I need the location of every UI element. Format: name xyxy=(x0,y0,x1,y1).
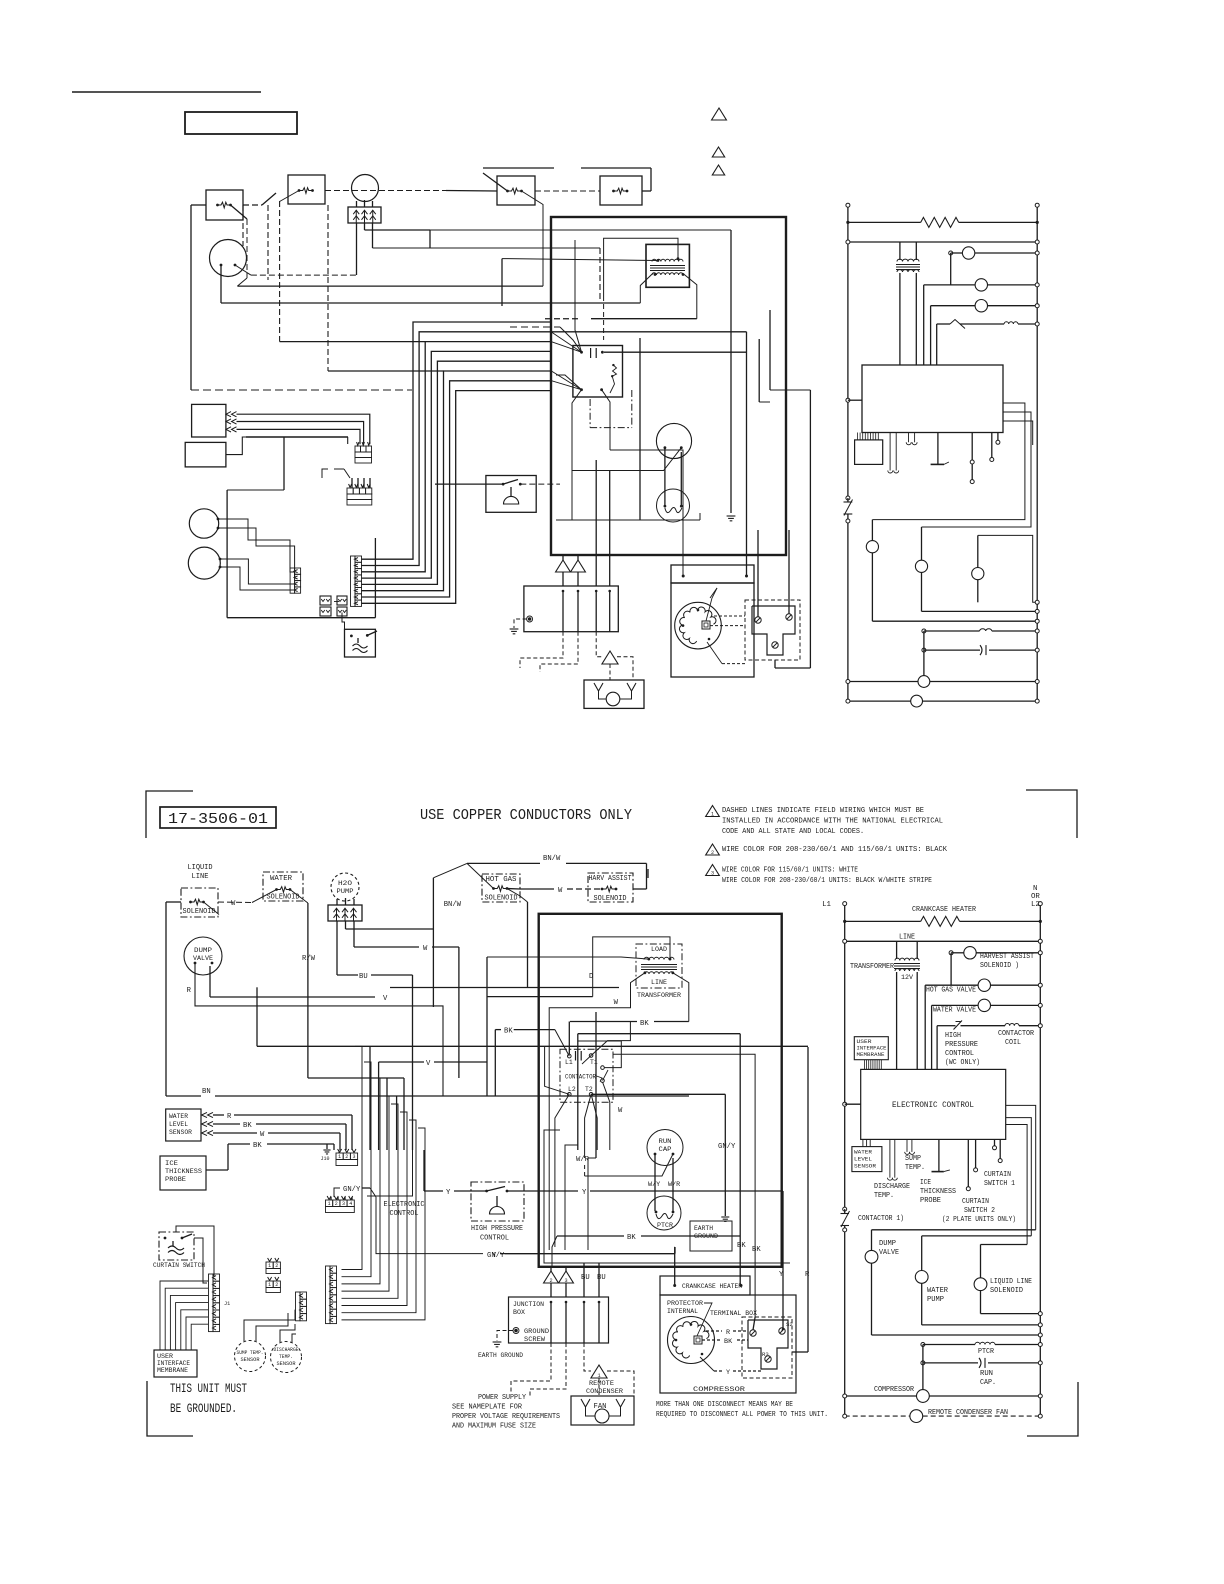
svg-text:LIQUID LINE: LIQUID LINE xyxy=(990,1278,1032,1286)
right rail (top ladder) xyxy=(1036,207,1038,701)
connector 4pin-B (top) xyxy=(295,568,301,574)
HPC wires (top) xyxy=(435,483,503,485)
ladder transformer (top) xyxy=(899,242,901,260)
crankcase heater strip (top) xyxy=(671,565,754,583)
svg-text:HARV ASSIST: HARV ASSIST xyxy=(589,875,633,883)
loop above curtain switch (top) xyxy=(334,530,336,542)
8pin riser bundle (top) xyxy=(362,322,552,559)
svg-text:PTCR: PTCR xyxy=(978,1348,995,1356)
vertical pair mid xyxy=(577,1034,579,1118)
svg-text:W: W xyxy=(423,945,428,953)
svg-text:WIRE COLOR FOR 208-230/60/1 UN: WIRE COLOR FOR 208-230/60/1 UNITS: BLACK… xyxy=(722,877,932,885)
junction box wires xyxy=(550,1267,552,1271)
right rail xyxy=(1039,906,1041,1417)
sensor wires to connectors xyxy=(244,1310,295,1341)
svg-text:PTCR: PTCR xyxy=(657,1222,673,1229)
svg-text:SWITCH 2: SWITCH 2 xyxy=(964,1207,995,1215)
svg-text:(WC ONLY): (WC ONLY) xyxy=(945,1059,980,1067)
svg-text:17-3506-01: 17-3506-01 xyxy=(168,812,268,828)
svg-text:RUN: RUN xyxy=(659,1138,672,1145)
dump valve (top) xyxy=(210,240,247,277)
BK label wire left of box xyxy=(514,1029,555,1031)
svg-text:BK: BK xyxy=(504,1028,513,1036)
svg-text:CONTROL: CONTROL xyxy=(390,1210,419,1218)
plug wires (top) xyxy=(356,223,358,275)
svg-text:COMPRESSOR: COMPRESSOR xyxy=(693,1386,745,1394)
long wire y303 (top) xyxy=(221,302,640,304)
svg-text:SOLENOID: SOLENOID xyxy=(990,1287,1023,1295)
svg-text:WATER: WATER xyxy=(854,1149,873,1156)
svg-text:PROBE: PROBE xyxy=(165,1176,186,1184)
svg-text:W: W xyxy=(618,1107,623,1115)
svg-text:BK: BK xyxy=(627,1234,636,1242)
connector J6 3pin xyxy=(336,1153,343,1160)
svg-text:BN: BN xyxy=(202,1088,211,1096)
water valve (ladder) xyxy=(932,1004,978,1006)
long wire y617.7 (top) xyxy=(227,617,375,619)
svg-text:PROPER VOLTAGE REQUIREMENTS: PROPER VOLTAGE REQUIREMENTS xyxy=(452,1413,560,1421)
svg-text:PUMP: PUMP xyxy=(927,1296,944,1304)
wire BK probe xyxy=(206,1169,228,1171)
curtain switch wires (top) xyxy=(334,601,339,603)
rail nodes top xyxy=(846,203,850,207)
connector 3pin (top) xyxy=(355,446,361,452)
curtain switch (top) xyxy=(345,629,376,657)
svg-text:CAP.: CAP. xyxy=(980,1379,996,1387)
svg-text:CONTROL: CONTROL xyxy=(945,1050,974,1058)
svg-text:INTERFACE: INTERFACE xyxy=(157,1360,190,1367)
wires into contactor BL (top) xyxy=(556,375,582,390)
svg-text:JUNCTION: JUNCTION xyxy=(513,1301,544,1309)
ground screw xyxy=(514,1329,518,1333)
svg-text:SWITCH 1: SWITCH 1 xyxy=(984,1180,1015,1188)
dashed wires left (top) xyxy=(242,205,244,246)
V wire y1062 xyxy=(379,1061,424,1063)
wire T1 tee up xyxy=(591,1022,630,1056)
PTCR xyxy=(647,1196,681,1230)
bottom interior verticals bundle xyxy=(544,1130,790,1263)
svg-text:SUMP: SUMP xyxy=(905,1155,921,1163)
discharge temp (ladder) xyxy=(889,1139,891,1177)
J10 ground stub xyxy=(326,1144,328,1149)
svg-text:CURTAIN: CURTAIN xyxy=(984,1171,1011,1179)
electronic control box (ladder) xyxy=(861,1069,1006,1139)
sump temp sensor xyxy=(235,1341,266,1372)
note triangle 3 (top) xyxy=(712,165,724,175)
sump temp (ladder) xyxy=(906,1139,908,1152)
WLS wires (top) xyxy=(237,414,370,444)
liquid line solenoid (top) xyxy=(206,190,243,220)
svg-text:R: R xyxy=(187,987,192,995)
svg-text:TRANSFORMER: TRANSFORMER xyxy=(637,992,681,1000)
BN bus y1096 xyxy=(166,1095,201,1097)
wire into LOAD left xyxy=(487,957,649,959)
wire bus from pump plug mid down xyxy=(346,928,434,930)
liquid line solenoid (ladder) xyxy=(981,1244,1028,1246)
hot gas valve (ladder) xyxy=(950,953,952,985)
PTCR rung (top ladder) xyxy=(922,629,926,633)
svg-text:W: W xyxy=(260,1131,265,1139)
wires into terminal box (top) xyxy=(757,530,759,617)
pump receptacle plug xyxy=(328,905,362,921)
wire R from dump valve xyxy=(195,963,443,1096)
svg-text:MEMBRANE: MEMBRANE xyxy=(857,1051,886,1058)
aux wire loop xyxy=(578,1041,622,1068)
svg-text:INTERNAL: INTERNAL xyxy=(667,1308,698,1316)
compressor box (top) xyxy=(671,583,754,677)
contactor dash-dot fragments (top) xyxy=(589,399,591,428)
svg-text:1: 1 xyxy=(597,1373,600,1379)
svg-text:INSTALLED IN ACCORDANCE WITH T: INSTALLED IN ACCORDANCE WITH THE NATIONA… xyxy=(722,818,943,826)
svg-text:BOX: BOX xyxy=(513,1309,525,1317)
svg-text:Y: Y xyxy=(779,1271,784,1279)
note triangle 2 (top) xyxy=(712,147,724,157)
wire T2 right (GN/Y riser) xyxy=(591,1093,725,1095)
control box boundary xyxy=(539,914,782,1267)
fan box (top) xyxy=(584,680,644,708)
svg-text:BK: BK xyxy=(243,1122,252,1130)
feeder rung xyxy=(845,940,1041,942)
wire LLS left to rail xyxy=(166,901,181,903)
svg-text:LINE: LINE xyxy=(651,979,667,987)
junction box (top) xyxy=(524,586,618,632)
line transformer dashed box xyxy=(636,944,682,988)
terminal box tee xyxy=(748,1320,788,1369)
contactor contact on rail (top) xyxy=(846,496,850,500)
svg-text:W/Y: W/Y xyxy=(648,1181,660,1189)
svg-text:MEMBRANE: MEMBRANE xyxy=(157,1367,188,1374)
svg-text:TEMP.: TEMP. xyxy=(874,1192,894,1200)
water pump (top ladder) xyxy=(915,560,927,572)
svg-text:BK: BK xyxy=(752,1246,761,1254)
dashed field wiring below (top) xyxy=(520,632,563,668)
remote condenser fan (top ladder) xyxy=(848,700,911,702)
remote condenser dashed loop xyxy=(584,1343,591,1371)
user interface membrane xyxy=(154,1350,197,1377)
svg-text:J10: J10 xyxy=(320,1156,329,1162)
svg-text:BU: BU xyxy=(359,973,368,981)
junction wires (top) xyxy=(562,555,564,560)
long wire y286 (top) xyxy=(246,219,248,278)
svg-text:WATER: WATER xyxy=(169,1113,188,1120)
J8 riser wires xyxy=(342,1046,363,1269)
bus y996.6 to D xyxy=(487,996,593,998)
svg-text:TEMP.: TEMP. xyxy=(279,1353,293,1360)
sheet corner mark bottom-right xyxy=(1027,1382,1078,1436)
GN/Y long wire xyxy=(376,1197,483,1254)
svg-text:N: N xyxy=(1033,885,1037,893)
wire bus pump right (top) xyxy=(365,229,431,231)
riser collectors xyxy=(338,1150,340,1153)
wire T1 right to terminal box xyxy=(613,1054,755,1317)
curtain switch 1 (ladder) xyxy=(994,1139,996,1147)
svg-text:HOT GAS: HOT GAS xyxy=(486,876,517,884)
svg-text:ELECTRONIC CONTROL: ELECTRONIC CONTROL xyxy=(892,1101,974,1110)
svg-text:COMPRESSOR: COMPRESSOR xyxy=(874,1386,915,1394)
svg-text:TRANSFORMER: TRANSFORMER xyxy=(850,963,895,971)
svg-text:LOAD: LOAD xyxy=(651,946,667,954)
svg-text:GROUND: GROUND xyxy=(524,1328,549,1336)
right-side verticals outside box (top) xyxy=(758,339,760,402)
contactor 1 contact on rail xyxy=(843,1207,847,1211)
top rule line xyxy=(72,91,261,93)
PTCR rung (ladder) xyxy=(921,1343,925,1347)
svg-text:R3: R3 xyxy=(762,1351,769,1358)
svg-text:R: R xyxy=(227,1113,232,1121)
svg-text:SCREW: SCREW xyxy=(524,1336,546,1344)
high pressure control (top) xyxy=(486,476,536,513)
svg-text:CRANKCASE HEATER: CRANKCASE HEATER xyxy=(682,1283,742,1291)
title block 17-3506-01 xyxy=(160,807,276,828)
probe wire bus (top) xyxy=(246,436,348,438)
triangles 2,3 over junction wires xyxy=(544,1271,559,1283)
svg-text:3: 3 xyxy=(711,870,714,876)
note triangle 1 (top) xyxy=(712,108,727,120)
wire into transformer left (top) xyxy=(502,259,658,261)
long thin wire y230 right (top) xyxy=(430,229,731,231)
svg-text:RUN: RUN xyxy=(980,1370,993,1378)
wires into contactor TL (top) xyxy=(560,327,582,352)
svg-text:SENSOR: SENSOR xyxy=(169,1129,192,1136)
HP + contactor coil rung (top) xyxy=(937,323,950,325)
svg-text:CURTAIN: CURTAIN xyxy=(962,1198,989,1206)
sensor wires (top) xyxy=(218,519,295,572)
wire Y into HPC xyxy=(424,1190,443,1192)
high pressure control + contactor coil rung xyxy=(937,1025,950,1027)
svg-text:REMOTE CONDENSER FAN: REMOTE CONDENSER FAN xyxy=(928,1409,1008,1417)
dump valve DV xyxy=(184,937,222,975)
water pump (ladder) xyxy=(922,1235,1032,1237)
svg-text:THICKNESS: THICKNESS xyxy=(165,1168,202,1176)
svg-text:EARTH: EARTH xyxy=(694,1225,713,1233)
svg-text:DISCHARGE: DISCHARGE xyxy=(874,1183,910,1191)
contactor (top) xyxy=(573,346,623,398)
wire BK from WLS xyxy=(213,1123,240,1125)
svg-text:GN/Y: GN/Y xyxy=(718,1143,736,1151)
EC right outputs (top) xyxy=(872,403,1025,520)
svg-text:J1: J1 xyxy=(224,1301,230,1307)
compressor motor xyxy=(668,1317,715,1364)
left rail (top ladder) xyxy=(847,207,849,498)
svg-text:VALVE: VALVE xyxy=(879,1249,899,1257)
run cap rung (ladder) xyxy=(921,1361,925,1365)
svg-text:CRANKCASE HEATER: CRANKCASE HEATER xyxy=(912,906,977,914)
svg-text:PUMP: PUMP xyxy=(337,888,354,895)
svg-text:SOLENOID: SOLENOID xyxy=(485,895,518,903)
feeder rung (top) xyxy=(848,241,1037,243)
svg-text:LINE: LINE xyxy=(899,934,915,942)
svg-text:USE COPPER CONDUCTORS ONLY: USE COPPER CONDUCTORS ONLY xyxy=(420,808,632,824)
svg-text:T1: T1 xyxy=(590,1059,598,1066)
left rail bottom segment xyxy=(191,389,412,391)
svg-text:12V: 12V xyxy=(901,974,914,982)
svg-text:WATER: WATER xyxy=(927,1287,949,1295)
svg-text:BN/W: BN/W xyxy=(444,901,462,909)
ice thickness probe (top) xyxy=(185,442,226,467)
svg-text:L1: L1 xyxy=(822,901,831,909)
svg-text:GROUND: GROUND xyxy=(694,1233,718,1241)
svg-text:3: 3 xyxy=(564,1278,567,1284)
GN/Y hook (top) xyxy=(322,469,328,478)
hot gas blade diagonal up to BN/W xyxy=(467,863,494,888)
water solenoid (top) xyxy=(288,175,325,204)
svg-text:AND MAXIMUM FUSE SIZE: AND MAXIMUM FUSE SIZE xyxy=(452,1423,536,1431)
connector J1 8pin xyxy=(213,1274,220,1281)
remote condenser triangle (top) xyxy=(602,651,618,664)
PTCR (top) xyxy=(657,489,690,522)
connector J3 4pin vertical xyxy=(300,1292,307,1299)
svg-text:TEMP.: TEMP. xyxy=(905,1164,925,1172)
vertical risers left (top) xyxy=(283,437,285,490)
ice thickness probe (ladder) xyxy=(938,1139,940,1171)
WLS connector arrows xyxy=(202,1112,208,1117)
H2O pump xyxy=(331,873,359,901)
motor leads (top) xyxy=(714,615,745,617)
pump plug wires xyxy=(336,921,338,975)
wires into L2 xyxy=(545,1046,570,1094)
wire R/W from water solenoid down xyxy=(290,890,308,904)
dashed field wires below junction box xyxy=(511,1343,551,1393)
svg-text:L1: L1 xyxy=(565,1059,573,1066)
transformer windings xyxy=(644,957,674,959)
sheet corner mark top-right xyxy=(1026,790,1077,838)
svg-text:S2: S2 xyxy=(786,1321,793,1328)
svg-text:THICKNESS: THICKNESS xyxy=(920,1188,956,1196)
hot gas box (top) xyxy=(497,176,535,205)
transformer top loop (top) xyxy=(604,238,678,296)
BR wire down (top) xyxy=(610,450,683,576)
wire W from WLS xyxy=(213,1132,257,1134)
svg-text:WATER VALVE: WATER VALVE xyxy=(933,1007,976,1015)
run cap rung (top ladder) xyxy=(922,648,926,652)
svg-text:H2O: H2O xyxy=(338,880,352,887)
wire W pump to right xyxy=(354,946,419,948)
svg-text:HARVEST ASSIST: HARVEST ASSIST xyxy=(980,953,1035,961)
svg-text:BN/W: BN/W xyxy=(543,855,561,863)
wires into 4pin (top) xyxy=(351,478,353,488)
svg-text:WIRE COLOR FOR 115/60/1 UNITS:: WIRE COLOR FOR 115/60/1 UNITS: WHITE xyxy=(722,867,858,875)
UIM wire bundle xyxy=(160,1281,208,1350)
risers to connector row xyxy=(378,1062,380,1150)
svg-text:SOLENOID ): SOLENOID ) xyxy=(980,962,1019,970)
water valve (top ladder) xyxy=(931,305,976,307)
wire R from WLS xyxy=(213,1114,224,1116)
EC left tap (top) xyxy=(846,398,850,402)
wire V from dump valve xyxy=(209,966,211,997)
svg-text:BK: BK xyxy=(724,1338,733,1346)
LINE left lead (W) xyxy=(549,973,645,1250)
svg-text:2: 2 xyxy=(549,1278,552,1284)
wire to water solenoid xyxy=(243,204,262,206)
high pressure control HPC xyxy=(471,1182,524,1221)
svg-text:HIGH: HIGH xyxy=(945,1032,961,1040)
svg-text:BU: BU xyxy=(581,1274,590,1282)
wires curtain switch to connector xyxy=(176,1226,214,1276)
svg-text:Y: Y xyxy=(726,1369,730,1377)
svg-text:GN/Y: GN/Y xyxy=(487,1252,505,1260)
triangles above junction (top) xyxy=(556,560,571,572)
svg-text:W: W xyxy=(558,887,563,895)
wire harv assist right side loop xyxy=(633,888,647,890)
LINE right lead xyxy=(673,973,689,1022)
W/Y + W/R leads to PTCR xyxy=(654,1154,656,1211)
sheet corner mark top-left xyxy=(146,791,193,838)
svg-text:1: 1 xyxy=(711,811,714,817)
wire W hot gas to harv assist xyxy=(507,888,520,891)
svg-text:PRESSURE: PRESSURE xyxy=(945,1041,978,1049)
svg-text:WATER: WATER xyxy=(270,875,293,883)
svg-text:ELECTRONIC: ELECTRONIC xyxy=(384,1201,426,1209)
motor lead dashes R BK Y xyxy=(706,1330,722,1332)
earth ground inside box (top) xyxy=(730,310,732,513)
svg-text:HOT GAS VALVE: HOT GAS VALVE xyxy=(926,987,976,995)
svg-text:CAP: CAP xyxy=(659,1146,672,1153)
svg-text:THIS UNIT MUST: THIS UNIT MUST xyxy=(170,1382,247,1396)
svg-text:USER: USER xyxy=(157,1353,173,1360)
svg-text:SOLENOID: SOLENOID xyxy=(594,895,627,903)
svg-text:V: V xyxy=(383,995,388,1003)
svg-text:CONTACTOR: CONTACTOR xyxy=(998,1030,1035,1038)
svg-text:Y: Y xyxy=(582,1189,587,1197)
interior verticals (top) xyxy=(556,519,572,521)
connector 4pin (top) xyxy=(347,488,353,494)
Y wire bottom crossing xyxy=(500,1253,675,1255)
wires J8 right side risers xyxy=(341,1269,343,1271)
svg-text:BE GROUNDED.: BE GROUNDED. xyxy=(170,1402,237,1416)
svg-text:SOLENOID: SOLENOID xyxy=(267,894,300,902)
BK bottom bus (top) xyxy=(556,519,700,521)
hot gas valve (top ladder) xyxy=(950,253,952,285)
svg-text:DISCHARGE: DISCHARGE xyxy=(274,1346,299,1353)
user interface membrane (ladder) xyxy=(854,1037,888,1060)
svg-text:SOLENOID: SOLENOID xyxy=(183,908,216,916)
EC right outputs xyxy=(1006,1105,1036,1229)
wire W from LLS to water solenoid xyxy=(218,901,252,904)
EC left rail tap xyxy=(843,1102,847,1106)
svg-text:W: W xyxy=(231,900,236,908)
svg-text:ICE: ICE xyxy=(165,1160,178,1168)
dump valve (top ladder) xyxy=(866,541,878,553)
curtain switch 2 (ladder) xyxy=(967,1139,969,1188)
terminal screws xyxy=(750,1330,756,1336)
harvest assist (top ladder) xyxy=(949,251,953,255)
svg-text:REMOTE: REMOTE xyxy=(589,1380,614,1388)
svg-text:DUMP: DUMP xyxy=(194,947,212,954)
wires into contactor L1 xyxy=(555,1030,569,1057)
note 3 triangle xyxy=(706,865,720,876)
svg-text:CURTAIN SWITCH: CURTAIN SWITCH xyxy=(153,1262,205,1270)
svg-text:W: W xyxy=(614,999,619,1007)
curtain switch xyxy=(159,1232,194,1260)
UIM box (top ladder) xyxy=(855,440,883,465)
pump (top) xyxy=(352,175,379,202)
svg-text:2: 2 xyxy=(711,850,714,856)
svg-text:BK: BK xyxy=(640,1020,649,1028)
svg-text:HIGH PRESSURE: HIGH PRESSURE xyxy=(471,1225,523,1233)
BN/W top wire xyxy=(483,167,554,169)
svg-text:POWER SUPPLY: POWER SUPPLY xyxy=(478,1394,527,1402)
svg-text:PROTECTOR: PROTECTOR xyxy=(667,1300,703,1308)
svg-text:COIL: COIL xyxy=(1005,1039,1021,1047)
svg-text:LEVEL: LEVEL xyxy=(169,1121,188,1128)
svg-text:BK: BK xyxy=(737,1242,746,1250)
wire Y from HPC right xyxy=(507,1190,578,1192)
svg-text:CONDENSER: CONDENSER xyxy=(586,1388,623,1396)
EC box (top ladder) xyxy=(862,365,1003,433)
wires into crankcase heater xyxy=(674,1247,676,1286)
connectors 2x2pin (top) xyxy=(320,596,331,605)
svg-text:(2 PLATE UNITS ONLY): (2 PLATE UNITS ONLY) xyxy=(942,1216,1016,1224)
